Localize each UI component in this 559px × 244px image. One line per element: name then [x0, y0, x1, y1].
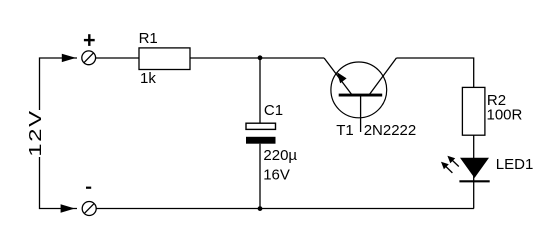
svg-text:R1: R1	[139, 30, 158, 47]
svg-text:2N2222: 2N2222	[364, 122, 417, 139]
svg-text:1k: 1k	[140, 70, 156, 87]
svg-text:220µ: 220µ	[263, 147, 297, 164]
svg-text:12V: 12V	[26, 109, 45, 157]
svg-text:100R: 100R	[487, 107, 523, 124]
svg-text:16V: 16V	[263, 167, 290, 184]
svg-text:C1: C1	[264, 102, 283, 119]
svg-text:T1: T1	[336, 122, 354, 139]
svg-text:LED1: LED1	[496, 156, 534, 173]
